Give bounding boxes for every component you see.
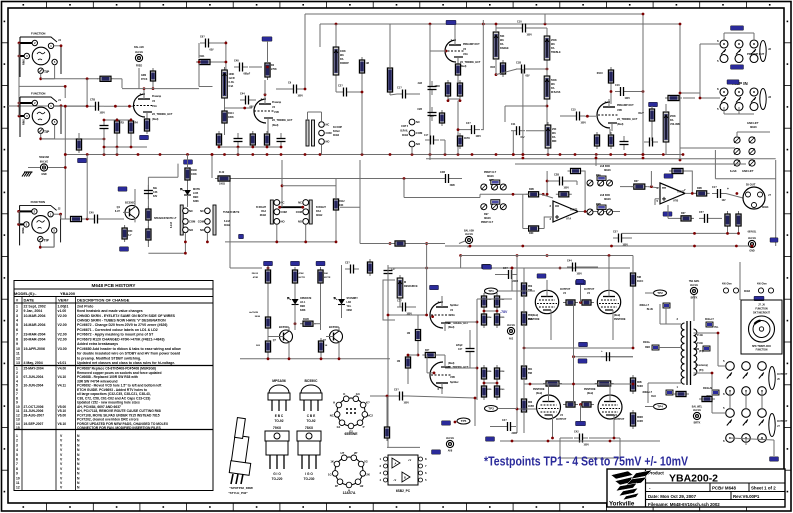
svg-text:6368: 6368: [193, 200, 199, 203]
svg-text:R3B: R3B: [697, 187, 702, 190]
wire: [19, 85, 65, 87]
svg-text:10: 10: [16, 347, 20, 351]
triode V2A: [444, 37, 481, 68]
wire: [78, 133, 80, 139]
svg-text:OUTPUT: OUTPUT: [777, 420, 788, 423]
wire: [408, 354, 418, 356]
junction: [586, 115, 589, 118]
svg-text:V4.10: V4.10: [58, 375, 67, 379]
svg-text:HI-LVG: HI-LVG: [465, 233, 473, 236]
wire (left feedback vertical): [429, 24, 431, 160]
svg-text:3KΩ4: 3KΩ4: [744, 290, 751, 293]
wire: [469, 357, 471, 368]
svg-text:50VA: 50VA: [255, 315, 261, 318]
wire: [694, 372, 713, 374]
junction: [522, 153, 525, 156]
wire: [717, 333, 719, 366]
svg-text:PC#6672 - Change D20 from 20V0: PC#6672 - Change D20 from 20V0 to 27V0 z…: [77, 323, 167, 327]
capacitor C2: [100, 120, 109, 134]
wire: [389, 24, 391, 47]
capacitor C10: [517, 21, 532, 37]
wire (input line): [8, 105, 87, 107]
wire: [645, 292, 654, 294]
svg-text:R1CC: R1CC: [637, 281, 644, 283]
svg-text:100V: 100V: [476, 136, 482, 138]
resistor R21: [594, 132, 599, 149]
svg-text:R-42: R-42: [219, 171, 225, 174]
capacitor C17: [712, 186, 726, 202]
capacitor C58: [90, 99, 105, 115]
resistor R115: [250, 131, 255, 148]
resistor R38: [725, 211, 730, 229]
junction: [608, 254, 611, 257]
wire: [458, 129, 466, 131]
wire (bias ground rail): [240, 358, 390, 360]
svg-text:FUNCTION: FUNCTION: [756, 350, 768, 352]
svg-text:Preamp: Preamp: [152, 95, 162, 98]
svg-text:+: +: [601, 349, 603, 353]
svg-text:19-SEP-2007: 19-SEP-2007: [24, 422, 44, 426]
wire: [341, 265, 343, 285]
svg-text:R1B: R1B: [490, 67, 495, 69]
svg-text:V2.00: V2.00: [58, 333, 67, 337]
wire: [445, 367, 477, 369]
wire: [85, 218, 90, 220]
svg-text:A: A: [395, 462, 397, 466]
earth bond E1: [40, 160, 48, 176]
wire: [522, 194, 524, 228]
node label: [770, 238, 778, 242]
svg-text:LD2: LD2: [347, 301, 352, 304]
svg-text:R112: R112: [339, 200, 345, 203]
svg-text:I G O: I G O: [305, 472, 313, 476]
wire: [505, 105, 547, 107]
wire (supply rail): [515, 163, 746, 165]
potentiometer P3 TREBLE: [544, 33, 561, 63]
resistor R71: [630, 410, 635, 429]
svg-text:R2B: R2B: [529, 188, 534, 191]
svg-text:RA: RA: [670, 119, 674, 122]
junction: [454, 421, 457, 424]
wire: [495, 274, 503, 276]
wire: [335, 213, 337, 242]
wire: [544, 14, 546, 24]
testpoint TP4: [654, 404, 667, 410]
resistor R3: [114, 118, 124, 136]
svg-text:PC#6671 - Corrected colour lab: PC#6671 - Corrected colour labels on LD1…: [77, 328, 158, 332]
resistor R122: [608, 67, 613, 86]
svg-text:(Red): (Red): [614, 314, 620, 317]
wire: [700, 97, 720, 99]
junction: [546, 68, 549, 71]
junction: [304, 88, 307, 91]
svg-text:3KΩ2: 3KΩ2: [316, 214, 323, 217]
svg-text:WA: WA: [500, 39, 504, 42]
wire: [335, 24, 337, 47]
connector J7 speaker twistlock: [741, 300, 782, 354]
resistor R43: [76, 136, 81, 153]
svg-text:NC: NC: [298, 201, 302, 205]
svg-text:YBA200-2: YBA200-2: [669, 473, 718, 485]
wire (splitter right rail): [476, 299, 478, 400]
svg-text:RANGE: RANGE: [500, 47, 509, 50]
resistor R59: [481, 383, 486, 400]
wire: [321, 145, 323, 155]
svg-text:DATE: DATE: [24, 298, 35, 303]
wire: [546, 171, 548, 194]
svg-text:400 Ohm: 400 Ohm: [757, 283, 767, 286]
svg-text:YEL: YEL: [714, 327, 719, 329]
svg-text:Preamp: Preamp: [272, 101, 282, 104]
svg-text:E B C: E B C: [275, 414, 284, 418]
svg-text:PREAMP OUT: PREAMP OUT: [747, 52, 765, 56]
svg-text:78XX: 78XX: [305, 426, 314, 430]
capacitor C71: [397, 300, 412, 316]
svg-text:HI-LVG: HI-LVG: [690, 284, 698, 287]
wire flag VCT: [712, 390, 719, 395]
svg-text:TP1: TP1: [488, 289, 494, 293]
main ground bus: [65, 154, 683, 156]
svg-text:1WB: 1WB: [450, 185, 455, 187]
svg-text:360Ω+N: 360Ω+N: [703, 388, 712, 390]
svg-text:V1A: V1A: [152, 105, 157, 108]
capacitor C13: [644, 138, 658, 147]
resistor R123: [649, 106, 654, 124]
wire: [104, 146, 147, 148]
svg-text:1: 1: [16, 434, 18, 438]
wire: [417, 315, 419, 330]
svg-text:TO-92: TO-92: [307, 419, 316, 423]
wire: [335, 78, 337, 92]
svg-text:HI-LVG: HI-LVG: [507, 324, 515, 327]
svg-text:100V: 100V: [527, 35, 533, 37]
wire: [224, 126, 226, 135]
wire: [714, 150, 716, 179]
chassis bond (op-amp gnd): [465, 233, 473, 249]
svg-text:360Ω+LT: 360Ω+LT: [642, 392, 652, 394]
package drawing MPSA56: [268, 379, 290, 423]
resistor R17: [457, 80, 462, 99]
svg-text:TP3: TP3: [488, 407, 494, 411]
wire: [544, 217, 553, 229]
svg-text:C B E: C B E: [307, 414, 316, 418]
svg-text:C15: C15: [571, 109, 576, 112]
svg-text:30-MAR-2004: 30-MAR-2004: [24, 337, 46, 341]
svg-text:PC#6680 Add header to ribbon &: PC#6680 Add header to ribbon & tabs to e…: [77, 347, 181, 351]
svg-text:NC: NC: [326, 123, 330, 127]
resistor R157: [318, 338, 323, 355]
wire: [211, 155, 213, 179]
wire: [390, 94, 397, 95]
capacitor C50: [277, 133, 286, 147]
potentiometer P1 (gain): [333, 44, 349, 78]
svg-text:3KΩ6: 3KΩ6: [484, 217, 491, 220]
capacitor C36: [384, 265, 393, 279]
resistor R65: [563, 402, 578, 407]
wire: [294, 285, 296, 299]
wire: [578, 211, 620, 213]
svg-text:470R: 470R: [253, 276, 259, 279]
wire: [647, 383, 649, 403]
wire: [667, 205, 669, 218]
svg-text:4: 4: [16, 448, 18, 452]
svg-text:6-9?: 6-9?: [115, 210, 121, 213]
wire (feedback vertical): [482, 20, 484, 125]
transistor Q1: [123, 200, 139, 222]
wire: [114, 78, 122, 80]
triode V2B: [597, 99, 638, 131]
wire: [632, 256, 634, 274]
wire: [411, 93, 420, 95]
svg-text:100V: 100V: [577, 274, 583, 276]
node label: [483, 265, 492, 269]
wire: [116, 147, 118, 155]
svg-text:RA4: RA4: [316, 210, 321, 213]
jumper pads JP2: [481, 200, 507, 210]
svg-text:MCTR: MCTR: [324, 277, 331, 279]
wire: [249, 66, 262, 68]
transformer T1 (output): [677, 317, 709, 389]
svg-text:3KΩ6: 3KΩ6: [604, 198, 611, 201]
wire: [469, 330, 471, 343]
node label: [727, 80, 739, 84]
revision history table: [14, 281, 213, 491]
wire: [138, 68, 140, 89]
wire: [184, 242, 186, 253]
wire: [632, 287, 634, 348]
svg-text:PREAMP OUT: PREAMP OUT: [463, 43, 480, 46]
wire: [441, 389, 443, 394]
svg-text:PREAMP OUT: PREAMP OUT: [617, 104, 634, 107]
wire: [512, 131, 514, 155]
svg-text:3KΩ3: 3KΩ3: [762, 206, 769, 209]
svg-text:28-AUG-2007: 28-AUG-2007: [24, 413, 45, 417]
node label: [576, 280, 586, 284]
node label: [239, 234, 244, 238]
svg-text:RODOP: RODOP: [340, 62, 349, 65]
svg-text:+: +: [727, 187, 729, 191]
wire: [338, 345, 340, 359]
svg-text:VOLUME: VOLUME: [670, 123, 681, 126]
svg-text:R3?: R3?: [634, 180, 639, 183]
wire (mid rail 1): [524, 347, 633, 349]
wire: [547, 180, 554, 182]
svg-text:360Ω+: 360Ω+: [643, 342, 651, 344]
wire: [319, 24, 321, 47]
wire: [511, 268, 513, 291]
svg-text:BAL A2K: BAL A2K: [134, 46, 144, 49]
testpoint TP5: [457, 418, 470, 424]
wire: [659, 304, 661, 324]
wire: [459, 241, 465, 244]
svg-text:B.RAIL: B.RAIL: [400, 130, 408, 133]
svg-text:WA: WA: [340, 54, 344, 57]
svg-text:M BASS: M BASS: [551, 91, 561, 94]
svg-text:TP4: TP4: [657, 405, 663, 409]
svg-text:RA4: RA4: [261, 210, 266, 213]
wire: [267, 355, 269, 359]
svg-text:(Red): (Red): [448, 326, 455, 329]
svg-text:Splitter: Splitter: [450, 304, 459, 307]
wire: [480, 193, 529, 195]
svg-text:3KΩ6: 3KΩ6: [604, 169, 611, 172]
svg-text:−V: −V: [393, 478, 397, 482]
capacitor C42b: [574, 431, 589, 447]
wire: [370, 395, 394, 397]
6550 socket inner pins: [346, 408, 356, 414]
triode V1A: [133, 91, 173, 121]
resistor R31: [556, 192, 572, 197]
svg-text:6550WE: 6550WE: [344, 432, 358, 436]
svg-text:RA: RA: [340, 58, 344, 61]
wire: [237, 147, 239, 155]
wire: [629, 91, 643, 93]
wire: [267, 265, 269, 268]
svg-text:CHNGD SKRN - EYELET# SAME ON B: CHNGD SKRN - EYELET# SAME ON BOTH SIDE O…: [77, 314, 176, 318]
svg-text:BC550C: BC550C: [279, 325, 289, 329]
wire: [738, 107, 740, 114]
wire: [320, 285, 322, 318]
svg-text:25K: 25K: [552, 128, 557, 131]
svg-text:R1?: R1?: [430, 116, 435, 118]
capacitor C53: [699, 211, 713, 223]
svg-text:C4?: C4?: [502, 419, 507, 422]
resistor R14: [439, 110, 444, 126]
svg-text:( Overtemp): ( Overtemp): [695, 364, 708, 367]
svg-text:TIP: TIP: [44, 238, 50, 242]
svg-text:LCB: LCB: [193, 192, 198, 195]
svg-text:C1?: C1?: [397, 87, 402, 90]
wire: [267, 285, 269, 315]
svg-text:GND LIFT: GND LIFT: [742, 170, 754, 173]
svg-text:TIP: TIP: [44, 70, 50, 74]
svg-text:100V: 100V: [100, 113, 106, 115]
svg-text:V2.00: V2.00: [58, 314, 67, 318]
svg-text:WA: WA: [552, 132, 556, 135]
wire: [738, 228, 740, 233]
wire: [773, 440, 775, 456]
svg-text:C44: C44: [567, 260, 572, 263]
svg-text:(Red): (Red): [448, 362, 455, 365]
junction: [474, 397, 477, 400]
svg-text:AV8: AV8: [448, 450, 453, 453]
wire: [753, 33, 755, 40]
svg-text:(Red): (Red): [617, 123, 624, 126]
wire: [560, 115, 571, 117]
node label: [731, 65, 744, 69]
wire: [724, 113, 754, 115]
svg-text:WA: WA: [551, 43, 555, 46]
svg-text:V2.00: V2.00: [58, 323, 67, 327]
wire: [359, 160, 361, 215]
wire: [541, 228, 544, 230]
capacitor C28: [554, 174, 569, 190]
wire: [340, 206, 360, 208]
svg-text:C6?: C6?: [200, 36, 205, 39]
wire: [654, 199, 656, 205]
svg-text:C5?: C5?: [394, 389, 399, 392]
svg-text:COP 5: COP 5: [401, 126, 409, 128]
junction: [64, 153, 67, 156]
svg-text:FUNCTION: FUNCTION: [31, 92, 45, 96]
resistor R29: [526, 192, 542, 197]
svg-text:U?A: U?A: [566, 218, 571, 221]
wire: [389, 47, 391, 68]
svg-text:NC2: NC2: [367, 414, 373, 418]
svg-text:22 Sept, 2002: 22 Sept, 2002: [24, 304, 46, 308]
resistor R58: [146, 226, 151, 243]
wire: [580, 405, 582, 422]
pentode V7 (6550): [537, 392, 561, 422]
capacitor C16: [615, 84, 630, 100]
wire (right vertical): [775, 160, 777, 246]
svg-text:RING: RING: [23, 119, 26, 125]
svg-text:3KΩ6: 3KΩ6: [487, 175, 494, 178]
svg-text:100K: 100K: [229, 73, 235, 76]
wire: [620, 186, 634, 188]
resistor R125: [367, 259, 372, 276]
wire: [498, 408, 518, 410]
wire: [206, 233, 208, 242]
svg-text:10K: 10K: [339, 204, 344, 207]
IC diagram 6SB2_PC: [379, 455, 427, 493]
junction: [294, 322, 297, 325]
svg-text:B: B: [404, 476, 406, 480]
wire: [294, 318, 296, 324]
svg-text:TO-220: TO-220: [272, 477, 283, 481]
svg-text:TREBLE: TREBLE: [551, 51, 561, 54]
svg-text:Filename: M648-6V10sch.sch 200: Filename: M648-6V10sch.sch 2002: [648, 502, 720, 507]
capacitor C52b: [394, 389, 409, 405]
feedback wire top: [305, 13, 643, 15]
wire: [18, 43, 20, 116]
resistor R45: [405, 354, 410, 371]
LED LD3 MUTE: [181, 188, 201, 203]
svg-text:HT: HT: [340, 451, 344, 455]
resistor R2: [265, 60, 270, 80]
wire: [648, 382, 681, 384]
wire: [718, 365, 726, 367]
svg-text:BAL ASH: BAL ASH: [464, 230, 474, 233]
op-amp U1B: [656, 183, 685, 204]
svg-text:12AX7A: 12AX7A: [343, 491, 356, 495]
wire: [477, 298, 512, 300]
wire: [335, 178, 337, 199]
svg-text:R12?: R12?: [638, 113, 644, 115]
junction: [511, 267, 514, 270]
resistor R67: [543, 381, 562, 386]
resistor R69: [630, 270, 635, 289]
wire: [264, 80, 266, 95]
svg-text:100V: 100V: [404, 403, 410, 405]
wire: [341, 285, 343, 299]
junction: [264, 93, 267, 96]
svg-text:BAL WEL: BAL WEL: [692, 406, 703, 409]
node label: [140, 135, 149, 139]
wire: [321, 112, 323, 122]
title block: [607, 469, 785, 508]
wire: [546, 63, 548, 76]
svg-text:13: 13: [16, 361, 20, 365]
svg-text:2W-55: 2W-55: [252, 273, 259, 275]
wire: [420, 178, 440, 180]
relay K2: [306, 120, 343, 146]
wire: [612, 316, 614, 340]
svg-text:C4A: C4A: [229, 85, 234, 88]
connector J1 (input jack B): [18, 92, 63, 141]
svg-text:C5?: C5?: [613, 231, 618, 234]
svg-text:07-JUN-2004: 07-JUN-2004: [24, 375, 44, 379]
